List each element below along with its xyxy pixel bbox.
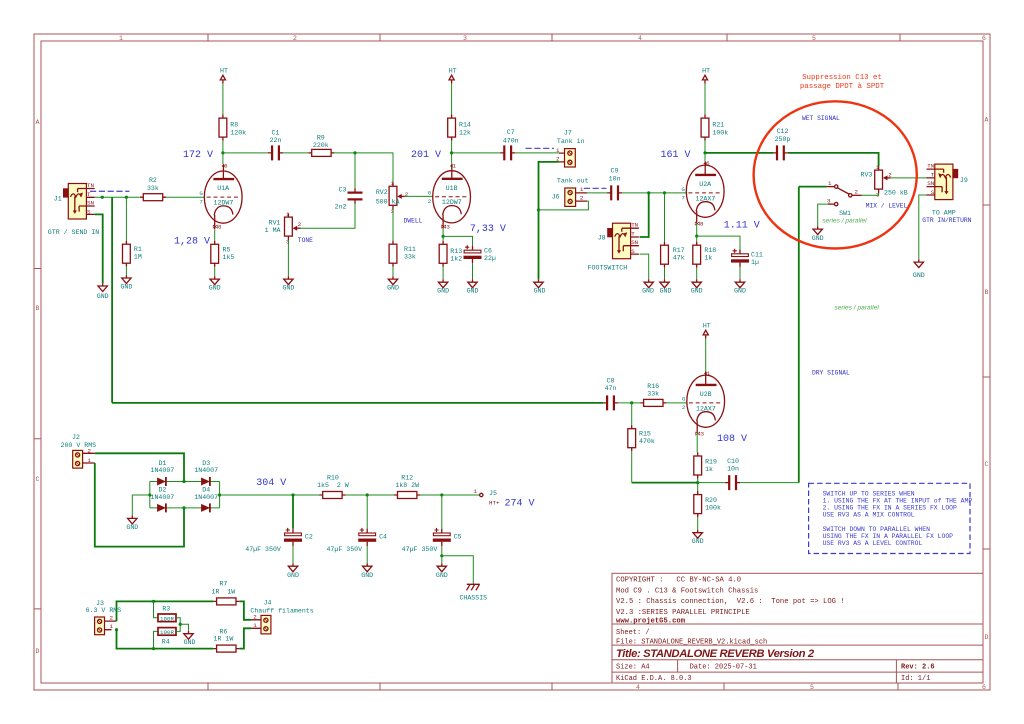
wire C12 to RV3 xyxy=(788,153,879,166)
node junction T1 xyxy=(101,196,104,199)
resistor R21 xyxy=(701,115,709,141)
capacitor C1 xyxy=(268,145,283,160)
ground R11 xyxy=(388,276,397,284)
svg-text:3: 3 xyxy=(827,197,831,204)
node 172V junction xyxy=(221,151,224,154)
resistor R6 xyxy=(213,645,239,652)
svg-text:5: 5 xyxy=(812,35,816,42)
svg-text:◂6: ◂6 xyxy=(221,163,228,170)
ground bridge xyxy=(128,516,137,524)
svg-text:R6: R6 xyxy=(219,628,227,635)
wire C5 drop xyxy=(441,495,443,529)
svg-text:C6: C6 xyxy=(484,248,492,255)
svg-text:1N4007: 1N4007 xyxy=(151,494,175,501)
svg-text:47k: 47k xyxy=(673,255,685,262)
wire C4 drop xyxy=(366,495,368,529)
svg-text:7: 7 xyxy=(199,199,203,206)
STAGE2 xyxy=(405,68,687,295)
svg-text:R4: R4 xyxy=(162,639,170,646)
capacitor C5 polarized xyxy=(433,528,451,546)
wire C8 to R16 xyxy=(618,402,640,404)
svg-text:C7: C7 xyxy=(507,129,515,136)
svg-text:4: 4 xyxy=(638,35,642,42)
resistor R1 xyxy=(123,241,131,267)
connector J3 6.3 V RMS xyxy=(95,615,117,635)
svg-text:C3: C3 xyxy=(339,187,347,194)
wire U1B plate drop xyxy=(451,153,453,164)
resistor R5 xyxy=(211,241,219,267)
svg-text:22µ: 22µ xyxy=(484,255,496,262)
node junction J3 pin1 xyxy=(115,628,118,631)
svg-text:10n: 10n xyxy=(727,465,739,472)
svg-text:Id: 1/1: Id: 1/1 xyxy=(901,675,930,683)
svg-text:1: 1 xyxy=(88,457,92,464)
svg-text:Tank out: Tank out xyxy=(557,177,589,184)
svg-text:GND: GND xyxy=(436,572,448,579)
svg-text:1M: 1M xyxy=(134,254,142,261)
wire HT to R8 xyxy=(222,84,224,115)
ground R5 xyxy=(210,276,219,284)
svg-text:C: C xyxy=(36,476,40,483)
svg-text:Suppression C13 et: Suppression C13 et xyxy=(802,74,882,82)
wire cathode to R13 xyxy=(442,236,444,240)
node junction heater bottom xyxy=(152,647,155,650)
ground R17 xyxy=(660,279,669,287)
svg-text:TN: TN xyxy=(631,221,638,228)
wire R18 gnd xyxy=(696,268,698,280)
wire J8 S to gnd xyxy=(640,254,649,279)
capacitor C4 polarized xyxy=(358,528,376,546)
connector J6 Tank out xyxy=(565,186,587,207)
ground R18 xyxy=(692,279,701,287)
svg-text:304 V: 304 V xyxy=(256,478,286,489)
wire U2A plate drop xyxy=(704,153,706,162)
svg-text:GND: GND xyxy=(642,288,654,295)
column ticks top xyxy=(208,34,900,41)
svg-text:SN: SN xyxy=(87,200,94,207)
svg-text:V2.3 :SERIES PARALLEL PRINCIPL: V2.3 :SERIES PARALLEL PRINCIPLE xyxy=(616,609,750,617)
resistor R3 xyxy=(158,614,176,622)
wire cathode to R18 xyxy=(696,236,698,242)
wire C9 to U2A grid xyxy=(622,192,686,194)
wire C6 gnd xyxy=(472,263,474,279)
potentiometer RV1 TONE xyxy=(285,211,302,246)
wire R11 gnd xyxy=(392,267,394,277)
svg-text:D: D xyxy=(985,634,989,641)
wire R1 drop xyxy=(125,197,127,240)
node junction J8T xyxy=(647,191,650,194)
svg-text:D: D xyxy=(36,648,40,655)
svg-text:G: G xyxy=(428,189,432,196)
svg-text:⋈3: ⋈3 xyxy=(695,430,705,437)
node junction C2 xyxy=(291,493,294,496)
svg-text:SN: SN xyxy=(927,180,934,187)
svg-text:D1: D1 xyxy=(158,460,166,467)
wire HT to U2B plate xyxy=(705,339,707,372)
capacitor C9 xyxy=(607,185,622,200)
node junction bridge right xyxy=(218,493,221,496)
svg-text:A: A xyxy=(985,117,989,124)
resistor R14 xyxy=(448,115,456,141)
svg-text:GND: GND xyxy=(534,288,546,295)
svg-text:1R 1W: 1R 1W xyxy=(212,588,236,595)
svg-text:C1: C1 xyxy=(272,129,280,136)
wire J9 S to gnd xyxy=(919,195,927,259)
capacitor C3 xyxy=(348,189,363,204)
svg-text:J4: J4 xyxy=(264,599,272,606)
svg-text:R19: R19 xyxy=(705,459,717,466)
node junction bridge left xyxy=(148,493,151,496)
ground C5 xyxy=(437,563,446,571)
connector J7 Tank in xyxy=(556,147,575,167)
wire SW1 pin3 gnd xyxy=(818,204,828,226)
svg-text:GND: GND xyxy=(209,285,221,292)
connector J5 HT+ out xyxy=(474,488,483,497)
svg-text:T: T xyxy=(931,171,935,178)
svg-text:R18: R18 xyxy=(704,247,716,254)
svg-text:2: 2 xyxy=(428,198,432,205)
bridge rails xyxy=(150,482,220,508)
svg-text:R5: R5 xyxy=(223,246,231,253)
svg-text:C2: C2 xyxy=(305,534,313,541)
svg-text:1µ: 1µ xyxy=(751,259,759,266)
svg-text:2: 2 xyxy=(580,195,584,202)
svg-text:12DW7: 12DW7 xyxy=(442,199,462,206)
resistor R18 xyxy=(693,242,701,268)
svg-text:passage DPDT à SPDT: passage DPDT à SPDT xyxy=(800,83,885,91)
resistor R7 xyxy=(213,598,239,605)
svg-text:33k: 33k xyxy=(647,391,659,398)
resistor R13 xyxy=(439,241,447,267)
note dashed box xyxy=(809,483,970,553)
svg-text:R11: R11 xyxy=(404,246,416,253)
svg-text:47µF 350V: 47µF 350V xyxy=(326,546,362,553)
wire RV2 to R11 xyxy=(392,210,394,241)
wire R7 to J4 pin2 xyxy=(239,601,251,619)
svg-text:7: 7 xyxy=(681,195,685,202)
svg-text:D2: D2 xyxy=(158,487,166,494)
potentiometer RV2 DWELL xyxy=(389,180,409,215)
svg-text:4: 4 xyxy=(636,684,640,691)
svg-text:J1: J1 xyxy=(54,196,62,203)
svg-text:SWITCH UP TO SERIES WHEN: SWITCH UP TO SERIES WHEN xyxy=(823,490,915,497)
wire long send line xyxy=(111,197,113,403)
wire C1 to R9 xyxy=(283,152,308,154)
svg-text:470n: 470n xyxy=(503,137,519,144)
svg-text:250 kB: 250 kB xyxy=(884,190,908,197)
tube U2A 12AX7 xyxy=(686,160,724,228)
wire C3 to RV1 wiper xyxy=(301,204,355,229)
HEATER xyxy=(86,580,314,652)
svg-text:5: 5 xyxy=(810,684,814,691)
svg-text:U2B: U2B xyxy=(700,391,712,398)
svg-text:2: 2 xyxy=(682,404,686,411)
svg-text:GND: GND xyxy=(282,285,294,292)
wire R19 to node xyxy=(697,479,699,491)
STAGE3 xyxy=(660,68,971,483)
node 161V junction xyxy=(703,151,706,154)
svg-text:2: 2 xyxy=(405,191,409,198)
svg-text:Chauff filaments: Chauff filaments xyxy=(250,607,313,614)
svg-text:200 V RMS: 200 V RMS xyxy=(61,442,97,449)
svg-text:RV2: RV2 xyxy=(376,189,388,196)
svg-text:1N4007: 1N4007 xyxy=(151,467,175,474)
svg-text:1: 1 xyxy=(253,622,257,629)
svg-text:GND: GND xyxy=(660,288,672,295)
svg-text:DWELL: DWELL xyxy=(404,217,423,224)
wire U2A cathode xyxy=(696,223,698,236)
svg-text:USE RV3 AS A MIX CONTROL: USE RV3 AS A MIX CONTROL xyxy=(823,511,915,518)
svg-text:GND: GND xyxy=(812,235,824,242)
svg-text:RV1: RV1 xyxy=(269,219,281,226)
svg-text:U1B: U1B xyxy=(446,185,458,192)
diode D3 1N4007 xyxy=(201,477,210,486)
row ticks right xyxy=(983,205,990,549)
svg-text:2: 2 xyxy=(110,615,114,622)
svg-text:1: 1 xyxy=(110,623,114,630)
wire HT to R14 xyxy=(451,84,453,115)
svg-text:Tank in: Tank in xyxy=(557,138,585,145)
wire long send to C8 xyxy=(112,402,603,404)
svg-text:⋈8: ⋈8 xyxy=(212,224,222,231)
svg-text:C4: C4 xyxy=(379,534,387,541)
node junction tankgnd xyxy=(537,208,540,211)
ground C2 xyxy=(288,563,297,571)
resistor R8 xyxy=(219,115,227,141)
node junction T2 xyxy=(125,196,128,199)
svg-text:GND: GND xyxy=(437,288,449,295)
svg-text:V2.5 : Chassis connection, V2: V2.5 : Chassis connection, V2.6 : Tone p… xyxy=(616,598,845,606)
node junction cathode3 xyxy=(695,235,698,238)
svg-text:GND: GND xyxy=(361,572,373,579)
svg-text:100k: 100k xyxy=(712,129,728,136)
ground J1-S xyxy=(98,283,107,291)
svg-text:GND: GND xyxy=(184,639,196,646)
svg-text:C11: C11 xyxy=(751,252,763,259)
wire R15 to cathode node xyxy=(631,451,633,482)
svg-text:250p: 250p xyxy=(775,136,791,143)
svg-text:10n: 10n xyxy=(609,176,621,183)
switch SW1 xyxy=(799,180,862,206)
svg-text:12AX7: 12AX7 xyxy=(696,195,716,202)
svg-text:1k5 2 W: 1k5 2 W xyxy=(317,482,349,489)
wire R14 to node xyxy=(451,141,453,153)
svg-text:◂1: ◂1 xyxy=(450,162,457,169)
connector J9 jack TO AMP xyxy=(927,162,959,199)
svg-text:DRY SIGNAL: DRY SIGNAL xyxy=(812,370,850,377)
wire R1 gnd xyxy=(125,267,127,275)
svg-text:T: T xyxy=(631,230,635,237)
ground J9 xyxy=(914,259,923,267)
svg-text:R10: R10 xyxy=(327,474,339,481)
svg-text:C8: C8 xyxy=(607,378,615,385)
svg-text:47n: 47n xyxy=(605,385,617,392)
wire J2 pin1 to bridge bottom xyxy=(95,463,184,547)
node junction bridge top xyxy=(182,480,185,483)
svg-text:◂6: ◂6 xyxy=(703,160,710,167)
capacitor C12 xyxy=(773,145,788,160)
node junction C4 xyxy=(366,493,369,496)
wire cathode to C6 xyxy=(443,236,472,245)
svg-text:1. USING THE FX AT THE INPUT o: 1. USING THE FX AT THE INPUT of THE AMP xyxy=(823,497,973,504)
ground R20 xyxy=(693,530,702,538)
svg-text:Title: STANDALONE REVERB Versi: Title: STANDALONE REVERB Version 2 xyxy=(616,648,815,660)
ground J7 xyxy=(534,279,543,287)
svg-text:R12: R12 xyxy=(401,474,413,481)
wire R21 to node xyxy=(704,141,706,153)
tube U2B 12AX7 xyxy=(687,370,725,438)
node junction cathode2 xyxy=(442,235,445,238)
node junction R3R4 xyxy=(179,623,182,626)
svg-text:1: 1 xyxy=(286,211,290,218)
svg-text:33k: 33k xyxy=(147,185,159,192)
svg-text:GTR IN/RETURN: GTR IN/RETURN xyxy=(922,217,971,224)
connector J2 200 V RMS xyxy=(73,448,95,469)
svg-text:C9: C9 xyxy=(611,168,619,175)
svg-text:47µF 350V: 47µF 350V xyxy=(402,546,438,553)
svg-text:TO AMP: TO AMP xyxy=(932,210,956,217)
diode D4 1N4007 xyxy=(201,503,210,512)
wire U2B cathode to R19 xyxy=(696,433,698,453)
wire R8 to node xyxy=(222,141,224,153)
node junction C5 xyxy=(440,493,443,496)
wire bridge gnd xyxy=(132,495,150,516)
svg-text:G: G xyxy=(199,190,203,197)
svg-text:GND: GND xyxy=(97,293,109,300)
wire J2 pin2 to bridge top xyxy=(95,453,184,481)
svg-text:C12: C12 xyxy=(777,128,789,135)
wire RV3 wiper to J9 xyxy=(891,177,928,179)
svg-text:12k: 12k xyxy=(459,129,471,136)
chassis symbol xyxy=(467,584,480,590)
svg-text:C5: C5 xyxy=(454,534,462,541)
STAGE1 xyxy=(48,68,423,403)
wire C2 drop xyxy=(292,495,294,529)
column ticks bottom xyxy=(208,683,898,690)
wire J3 pin1 to bottom rail xyxy=(117,630,154,649)
svg-text:TN: TN xyxy=(927,162,934,169)
wire HT to R21 xyxy=(704,84,706,115)
svg-text:R21: R21 xyxy=(712,122,724,129)
svg-text:220k: 220k xyxy=(313,142,329,149)
svg-text:USING THE FX IN A PARALLEL FX: USING THE FX IN A PARALLEL FX LOOP xyxy=(823,533,954,540)
svg-text:B: B xyxy=(36,305,40,312)
wire cathode to R5 xyxy=(214,229,216,241)
wire node to C3 xyxy=(354,153,356,189)
svg-text:COPYRIGHT : CC BY-NC-SA 4.0: COPYRIGHT : CC BY-NC-SA 4.0 xyxy=(616,577,741,585)
svg-text:161 V: 161 V xyxy=(660,150,690,161)
connector J4 Chauff filaments xyxy=(251,613,271,634)
resistor R9 xyxy=(308,149,334,156)
svg-text:R8: R8 xyxy=(230,122,238,129)
svg-text:GND: GND xyxy=(692,538,704,545)
wire node to C7 xyxy=(452,152,501,154)
wire plate drop xyxy=(222,153,224,164)
svg-text:GND: GND xyxy=(467,288,479,295)
svg-text:RV3: RV3 xyxy=(861,172,873,179)
node 201V junction xyxy=(450,151,453,154)
ground R3R4 xyxy=(184,631,193,639)
svg-text:172 V: 172 V xyxy=(183,150,213,161)
svg-text:GTR / SEND IN: GTR / SEND IN xyxy=(48,229,99,236)
svg-text:J9: J9 xyxy=(960,177,968,184)
capacitor C7 xyxy=(500,145,515,160)
node junction chassis xyxy=(440,554,443,557)
svg-text:R13: R13 xyxy=(450,248,462,255)
wire cathode to C11 xyxy=(697,236,740,249)
resistor R10 xyxy=(319,492,345,499)
svg-text:J7: J7 xyxy=(564,129,572,136)
svg-text:2. USING THE FX IN A SERIES FX: 2. USING THE FX IN A SERIES FX LOOP xyxy=(823,504,957,511)
svg-text:HT: HT xyxy=(702,68,710,75)
diode D2 1N4007 xyxy=(157,503,166,512)
node junction R15 xyxy=(630,401,633,404)
svg-text:WET SIGNAL: WET SIGNAL xyxy=(802,115,840,122)
svg-text:3: 3 xyxy=(463,35,467,42)
svg-text:2n2: 2n2 xyxy=(335,204,347,211)
ground R1 xyxy=(122,275,131,283)
svg-text:A: A xyxy=(36,119,40,126)
wire R4 branch xyxy=(154,631,159,648)
resistor R11 xyxy=(389,241,397,267)
svg-text:120k: 120k xyxy=(230,129,246,136)
svg-text:MIX / LEVEL: MIX / LEVEL xyxy=(866,203,908,210)
svg-text:1k: 1k xyxy=(704,255,712,262)
capacitor C2 polarized xyxy=(284,528,302,546)
wire R3 branch xyxy=(154,601,159,617)
svg-text:1: 1 xyxy=(556,147,560,154)
svg-text:GND: GND xyxy=(913,272,925,279)
wire C7 to J7 xyxy=(515,152,559,154)
node junction bridge bottom xyxy=(182,506,185,509)
svg-text:J5: J5 xyxy=(489,490,497,497)
svg-text:R17: R17 xyxy=(673,247,685,254)
svg-text:R16: R16 xyxy=(647,383,659,390)
svg-text:FOOTSWITCH: FOOTSWITCH xyxy=(588,264,628,271)
resistor R16 xyxy=(640,399,666,406)
resistor R19 xyxy=(694,452,702,478)
wire R9 to RV2 xyxy=(334,153,393,183)
shield dashed line J6 xyxy=(584,187,607,189)
wire R13 gnd xyxy=(442,267,444,280)
svg-text:1: 1 xyxy=(580,186,584,193)
wire J7 pin2 to gnd xyxy=(539,162,559,280)
wire RV2 wiper to U1B grid xyxy=(405,195,433,197)
diode D1 1N4007 xyxy=(157,477,166,486)
svg-text:◂1: ◂1 xyxy=(704,370,711,377)
svg-text:SWITCH DOWN TO PARALLEL WHEN: SWITCH DOWN TO PARALLEL WHEN xyxy=(823,526,931,533)
svg-text:1k8 2W: 1k8 2W xyxy=(395,482,419,489)
svg-text:J6: J6 xyxy=(552,194,560,201)
svg-text:GND: GND xyxy=(120,284,132,291)
shield dashed line J1 xyxy=(90,190,130,192)
node junction heater top xyxy=(152,600,155,603)
svg-text:S: S xyxy=(931,189,935,196)
ground C4 xyxy=(363,563,372,571)
capacitor C10 xyxy=(725,475,740,490)
svg-text:J8: J8 xyxy=(598,235,606,242)
svg-text:HT: HT xyxy=(449,68,457,75)
svg-text:U2A: U2A xyxy=(699,181,711,188)
svg-text:2: 2 xyxy=(888,171,892,178)
ground SW1 xyxy=(813,226,822,234)
wire B+ rail xyxy=(220,494,480,496)
svg-text:6: 6 xyxy=(982,684,986,691)
svg-text:7,33 V: 7,33 V xyxy=(470,224,506,235)
ground J8 xyxy=(644,279,653,287)
svg-text:GND: GND xyxy=(387,285,399,292)
svg-text:1 MA: 1 MA xyxy=(265,227,281,234)
